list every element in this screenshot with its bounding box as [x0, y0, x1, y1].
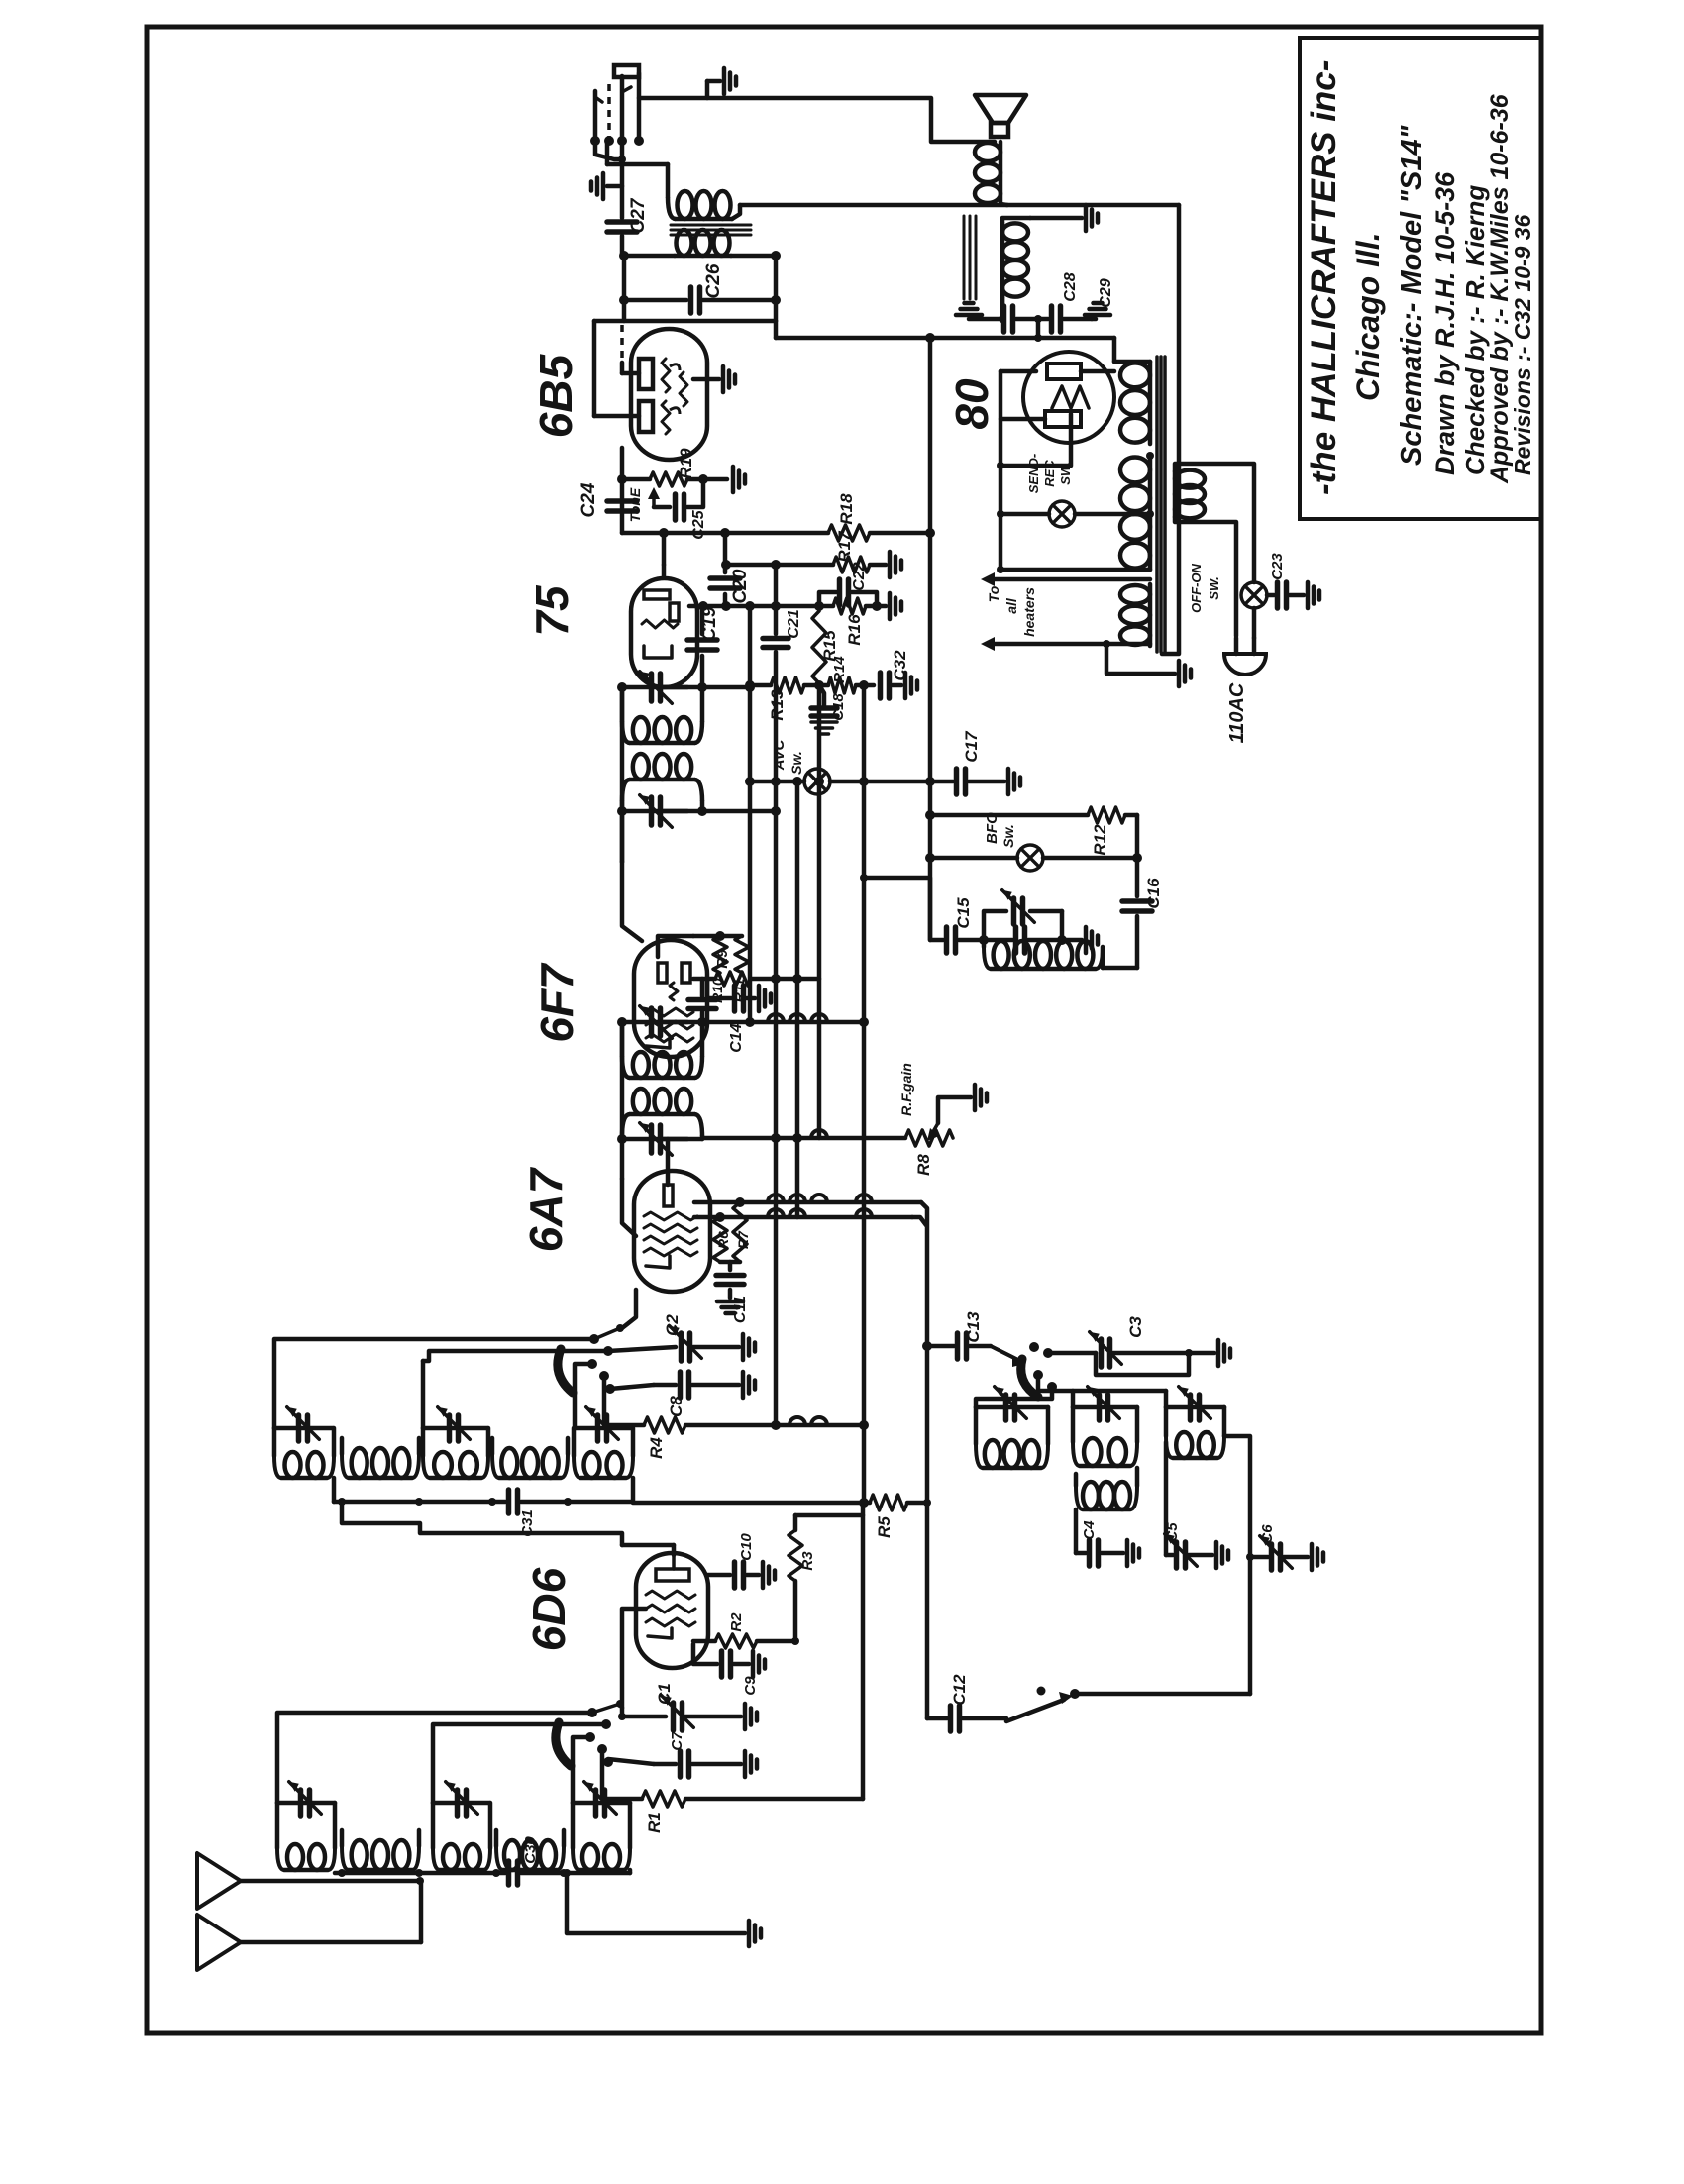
- switch SW1 blade: [556, 1722, 571, 1766]
- antenna coil group 3 trimmer: [573, 1782, 630, 1816]
- wire C7 row: [608, 1759, 654, 1764]
- wire C6 drop: [1224, 1436, 1250, 1557]
- wire antenna baseline: [335, 1869, 505, 1877]
- wire R2 junction up: [776, 1605, 795, 1641]
- wire hops row 1149: [771, 1130, 827, 1143]
- svg-text:R5: R5: [875, 1516, 894, 1538]
- svg-text:heaters: heaters: [1021, 587, 1037, 637]
- capacitor C4: [1076, 1540, 1123, 1566]
- wire SW1 feed G3: [573, 1737, 590, 1803]
- svg-text:C21: C21: [786, 609, 802, 638]
- output transformer primary: [1002, 218, 1030, 319]
- title text checked by: [1460, 185, 1490, 475]
- svg-text:C5: C5: [1164, 1522, 1181, 1542]
- wire row 1214: [694, 1197, 921, 1207]
- label C13: [964, 1311, 983, 1343]
- resistor R14: [828, 677, 856, 693]
- svg-text:6B5: 6B5: [530, 353, 581, 438]
- label C30: [522, 1836, 539, 1864]
- ground BFO tank: [1086, 927, 1098, 953]
- label R18: [837, 493, 856, 525]
- tube 6B5 grid resistors: [680, 372, 687, 406]
- ground C2: [743, 1334, 755, 1360]
- label R6: [715, 1231, 731, 1249]
- resistor R18: [828, 525, 870, 541]
- capacitor C19: [687, 606, 717, 687]
- capacitor C8: [654, 1372, 739, 1398]
- label C8: [667, 1396, 685, 1417]
- svg-text:R1: R1: [645, 1812, 664, 1833]
- label R7: [735, 1230, 751, 1249]
- wire B+ to HV top: [930, 338, 1114, 362]
- switch SEND-REC: [1049, 501, 1075, 527]
- label C28: [1062, 272, 1079, 301]
- wire 6A7 grid to SW2: [620, 1290, 636, 1328]
- svg-text:R12: R12: [1091, 824, 1109, 856]
- svg-text:Schematic:- Model "S14": Schematic:- Model "S14": [1396, 124, 1427, 466]
- capacitor C28: [1004, 306, 1049, 332]
- transformer T1 secondary: [619, 230, 781, 260]
- wire 6B5 grid row: [594, 319, 776, 324]
- IFT3 secondary coil: [622, 754, 702, 811]
- capacitor C25: [654, 479, 703, 520]
- switch osc blade from C13: [991, 1346, 1024, 1367]
- label C23: [1269, 553, 1286, 580]
- wire osc feed C3: [1048, 1351, 1096, 1356]
- wire C1 row: [618, 1713, 666, 1720]
- wire C16 to coil: [1103, 966, 1137, 971]
- label R11: [731, 978, 747, 1002]
- mixer plain coil 1: [342, 1438, 419, 1478]
- svg-text:R.F.gain: R.F.gain: [898, 1063, 914, 1116]
- ground C10: [763, 1562, 775, 1588]
- svg-text:OFF-ON: OFF-ON: [1189, 563, 1204, 612]
- resistor R7: [733, 1202, 747, 1262]
- resistor R4: [644, 1417, 685, 1433]
- capacitor C24: [607, 501, 637, 511]
- svg-text:Chicago Ill.: Chicago Ill.: [1350, 232, 1386, 401]
- resistor R6: [713, 1217, 727, 1262]
- IFT2 left rail: [620, 1022, 625, 1139]
- label C2: [663, 1314, 682, 1336]
- bus wire 781: [771, 560, 781, 1425]
- svg-text:R19: R19: [677, 448, 695, 479]
- label C6: [1259, 1524, 1276, 1544]
- ground output transformer: [1030, 205, 1098, 231]
- capacitor C cathode 6F7: [707, 979, 755, 1011]
- transformer T1 primary: [668, 191, 740, 219]
- wire Tout primary to caps: [999, 297, 1006, 323]
- wire grid row R19: [617, 474, 650, 484]
- switch SW4 blade: [1006, 1687, 1073, 1722]
- bus wire 872: [863, 685, 864, 1799]
- label R19: [677, 448, 695, 479]
- mixer coil group 1: [274, 1428, 334, 1502]
- osc coil group 2 trimmer: [1073, 1387, 1137, 1420]
- antenna symbol 2: [197, 1915, 241, 1970]
- wire C17 row: [930, 780, 953, 784]
- wire 6D6 grid rail: [622, 1609, 646, 1716]
- wire SW2 feed mid: [423, 1351, 608, 1428]
- resistor R9: [715, 972, 751, 986]
- wire hops row 1214: [768, 1195, 872, 1202]
- switch AVC: [804, 769, 830, 794]
- wire switch to C23: [1267, 593, 1274, 598]
- tube 6B5 plate leads: [594, 321, 639, 416]
- svg-text:6F7: 6F7: [531, 962, 582, 1043]
- tube 6F7 plate res: [670, 983, 678, 1000]
- label R2: [728, 1612, 745, 1632]
- svg-text:C2: C2: [663, 1314, 682, 1336]
- ground C29 right: [1085, 303, 1110, 319]
- antenna plain coil 1: [342, 1830, 419, 1870]
- svg-text:all: all: [1003, 597, 1019, 614]
- wire B+ row 1032: [702, 1017, 869, 1027]
- capacitor C29: [1052, 306, 1093, 332]
- capacitor C13: [958, 1333, 992, 1359]
- wire mixer baseline: [334, 1498, 505, 1506]
- switch SW1 contacts: [585, 1708, 613, 1767]
- ground top tap: [707, 68, 736, 98]
- label C19: [699, 606, 720, 641]
- svg-text:Revisions :- C32 10-9 36: Revisions :- C32 10-9 36: [1510, 214, 1535, 475]
- switch SW2 pointer: [594, 1324, 624, 1339]
- resistor R2: [715, 1634, 757, 1648]
- resistor R10: [713, 936, 727, 988]
- label 6B5: [530, 353, 581, 438]
- resistor R16: [833, 598, 866, 614]
- label 75: [526, 584, 578, 637]
- bus wire 804: [792, 777, 802, 1217]
- tube 80 plate 2: [1045, 411, 1081, 427]
- label R16: [845, 614, 864, 646]
- osc coil group 1 trimmer: [976, 1387, 1048, 1420]
- label R14: [831, 656, 848, 683]
- tube 6D6 plate: [656, 1555, 689, 1581]
- resistor R1: [642, 1791, 685, 1807]
- HV winding bottom: [1120, 456, 1150, 570]
- wire B+ row: [622, 528, 828, 538]
- svg-text:REC: REC: [1042, 460, 1057, 487]
- svg-text:Drawn by R.J.H. 10-5-36: Drawn by R.J.H. 10-5-36: [1430, 171, 1460, 475]
- resistor R15: [812, 611, 826, 683]
- wire R2 right: [757, 1581, 799, 1645]
- BFO coil: [984, 940, 1103, 969]
- phone jack tip contact: [614, 65, 639, 77]
- resistor R13: [771, 677, 804, 693]
- ground C7: [745, 1751, 757, 1777]
- wire R3 top: [795, 1515, 863, 1530]
- tube 6D6 grids: [646, 1591, 695, 1626]
- wire BFO tank ground: [1062, 938, 1082, 943]
- svg-text:R14: R14: [831, 656, 848, 683]
- label C14: [728, 1023, 745, 1052]
- capacitor C9: [693, 1644, 749, 1677]
- wire SW1 feed top: [277, 1713, 592, 1803]
- wire antenna 2: [241, 1940, 421, 1945]
- svg-text:C3: C3: [1126, 1316, 1145, 1338]
- wire row 612: [698, 601, 833, 611]
- wire rows to C13 rail: [912, 1202, 927, 1718]
- wire AVC row: [745, 777, 824, 786]
- trimmer C1: [662, 1696, 741, 1730]
- title text revisions: [1510, 214, 1535, 475]
- wire row 1229: [694, 1212, 912, 1222]
- wire IFT2 to 6A7: [622, 1139, 636, 1236]
- osc coil group 2: [1073, 1407, 1137, 1466]
- svg-text:R6: R6: [715, 1231, 731, 1249]
- trimmer C5: [1165, 1534, 1212, 1568]
- svg-text:C30: C30: [522, 1836, 539, 1864]
- resistor R8: [905, 1130, 953, 1146]
- capacitor C10: [706, 1562, 759, 1588]
- svg-text:C10: C10: [738, 1533, 755, 1561]
- osc lower coil: [1076, 1468, 1137, 1509]
- antenna plain coil 2: [496, 1830, 564, 1870]
- capacitor C20: [710, 533, 740, 611]
- capacitor C16: [1122, 901, 1152, 968]
- tube 6A7 cathode: [646, 1256, 670, 1268]
- wire C5 drop: [1165, 1442, 1167, 1555]
- BFO tank cap: [984, 927, 1062, 953]
- label C9: [742, 1676, 759, 1696]
- antenna coil group 2 trimmer: [433, 1782, 489, 1816]
- phone jack junction dots: [590, 136, 644, 146]
- wire R19 to ground: [687, 474, 727, 484]
- wire R13-R14: [804, 680, 828, 690]
- wire 5V top to switch rail: [1175, 464, 1254, 582]
- label SEND-REC SW: [1026, 454, 1073, 493]
- svg-text:110AC: 110AC: [1226, 682, 1248, 743]
- ground C18: [811, 722, 837, 734]
- ground R19: [733, 467, 745, 492]
- output transformer core: [964, 216, 976, 299]
- label R15: [820, 630, 839, 662]
- wire row 692: [745, 680, 771, 690]
- wire 6A7 plate lead: [666, 1139, 671, 1185]
- ground antenna bank: [749, 1921, 761, 1946]
- wire R9 row: [693, 977, 715, 982]
- switch SW2 blade: [558, 1349, 573, 1393]
- label C29: [1098, 278, 1114, 307]
- tube 6F7 cathode: [646, 1038, 670, 1048]
- IFT2 secondary coil: [622, 1089, 702, 1139]
- wire hops row 1229: [768, 1209, 872, 1217]
- svg-text:R9: R9: [714, 949, 731, 969]
- label C5: [1164, 1522, 1181, 1542]
- wire speaker return: [740, 203, 1179, 208]
- ground C17: [1008, 769, 1020, 794]
- wire R9 right: [751, 974, 819, 984]
- wire jack step to T1: [607, 141, 668, 197]
- svg-text:R2: R2: [728, 1612, 745, 1632]
- ground C11: [717, 1301, 743, 1313]
- label R9: [714, 949, 731, 969]
- capacitor C22 loop: [819, 579, 877, 606]
- title text city: [1350, 232, 1386, 401]
- tube 6A7 plate: [664, 1185, 673, 1206]
- osc coil group 3: [1166, 1407, 1224, 1458]
- heater winding: [1120, 584, 1150, 646]
- mixer coil group 3: [574, 1428, 633, 1478]
- plug 110AC prongs: [1236, 638, 1254, 654]
- IFT3 left rail: [620, 687, 625, 862]
- trimmer C2: [670, 1326, 739, 1361]
- label C27: [628, 197, 649, 233]
- label C7: [669, 1731, 685, 1751]
- svg-text:Sw.: Sw.: [1000, 824, 1016, 848]
- ground C5: [1216, 1542, 1228, 1568]
- transformer T1 core: [671, 225, 751, 235]
- wire 75 right lead: [689, 604, 703, 609]
- capacitor C14: [688, 979, 716, 1027]
- power transformer core: [1157, 357, 1165, 652]
- ground R8: [975, 1085, 987, 1110]
- antenna coil group 2: [433, 1803, 490, 1870]
- svg-text:R18: R18: [837, 493, 856, 525]
- tube 80 plate 1: [1047, 364, 1081, 379]
- capacitor C32: [881, 673, 902, 698]
- label C17: [962, 730, 981, 763]
- mixer coil group 2 trimmer: [423, 1407, 487, 1441]
- wire R1 row right: [685, 1797, 863, 1802]
- trimmer C3: [1090, 1332, 1193, 1367]
- pot wiper R8: [927, 1097, 971, 1141]
- capacitor C21: [763, 639, 789, 648]
- svg-text:SW.: SW.: [1058, 462, 1073, 485]
- svg-text:C28: C28: [1062, 272, 1079, 301]
- label AVC Sw: [771, 739, 804, 775]
- ground C28 left: [956, 303, 982, 315]
- border frame: [147, 27, 1541, 2033]
- label C32: [891, 650, 909, 681]
- wire T1 to B+ node: [776, 321, 930, 338]
- wire R17 row: [721, 560, 833, 570]
- ground C23: [1308, 582, 1319, 608]
- label C16: [1144, 878, 1163, 909]
- title text schematic model: [1396, 124, 1427, 466]
- title text drawn by: [1430, 171, 1460, 475]
- wire osc feeds: [976, 1375, 1166, 1407]
- tube 6B5 plate 2: [639, 401, 680, 434]
- tube 6A7 envelope: [634, 1171, 710, 1292]
- antenna symbol 1: [197, 1853, 241, 1909]
- resistor R19: [650, 472, 687, 486]
- svg-text:R7: R7: [735, 1230, 751, 1249]
- wire right edge down: [1162, 205, 1179, 654]
- tube 6A7 grids: [644, 1212, 697, 1256]
- wire C2 row: [608, 1347, 676, 1351]
- osc coil group 3 trimmer: [1166, 1387, 1224, 1420]
- switch OFF-ON: [1241, 582, 1267, 608]
- svg-text:C9: C9: [742, 1676, 759, 1696]
- wire hops row 1439: [789, 1417, 827, 1425]
- svg-text:C15: C15: [954, 897, 973, 929]
- label TonE: [627, 487, 643, 522]
- tube 75 plate lead: [662, 533, 667, 577]
- label C21: [786, 609, 802, 638]
- title text company: [1305, 60, 1343, 495]
- svg-text:AVC: AVC: [771, 739, 788, 772]
- wire C13 row: [922, 1341, 954, 1351]
- wire C28 row: [969, 317, 1000, 322]
- plug 110AC body: [1224, 654, 1266, 675]
- osc coil group 1: [976, 1407, 1048, 1468]
- label RF gain: [898, 1063, 914, 1116]
- IFT2 trimmer bottom: [617, 1123, 702, 1156]
- title text approved by: [1486, 93, 1514, 484]
- switch BFO: [1017, 845, 1043, 871]
- wire 6D6 plate to top: [622, 1545, 674, 1555]
- wire switch to plug: [1252, 608, 1257, 638]
- label C4: [1081, 1520, 1098, 1540]
- IFT3 primary coil: [622, 687, 702, 743]
- wire C3 padder loop: [1096, 1353, 1189, 1375]
- svg-text:R16: R16: [845, 614, 864, 646]
- wire R8 row: [702, 1136, 905, 1141]
- label C24: [579, 482, 599, 517]
- resistor R5: [870, 1495, 907, 1510]
- tube 75 diode plates: [644, 590, 679, 621]
- BFO tank trimmer: [1002, 890, 1035, 924]
- wire SW2 feed G3: [575, 1364, 592, 1428]
- IFT2 trimmer top: [617, 1006, 702, 1039]
- tube 6F7 plate 1: [658, 963, 667, 983]
- label C11: [732, 1296, 749, 1323]
- wire SW2 feed top: [274, 1339, 594, 1428]
- svg-text:C4: C4: [1081, 1520, 1098, 1540]
- speaker voice coil: [975, 142, 1007, 205]
- wire bank to ground: [563, 1869, 745, 1933]
- label R13: [768, 689, 787, 721]
- tube 6D6 cathode: [648, 1628, 672, 1638]
- IFT3 trimmer bottom: [617, 795, 702, 828]
- svg-text:SEND-: SEND-: [1026, 454, 1041, 493]
- wire IFT3 to 6F7: [622, 811, 642, 941]
- label 6A7: [520, 1166, 572, 1252]
- antenna coil group 1: [277, 1803, 335, 1873]
- label C18: [830, 693, 847, 721]
- switch SW3 contacts: [1029, 1342, 1057, 1392]
- wire HV bottom: [997, 566, 1150, 573]
- wire C15 branch: [860, 874, 943, 940]
- label R10: [709, 978, 725, 1003]
- bus wire 827: [817, 685, 822, 1138]
- wire heater bottom arrow: [981, 637, 1150, 651]
- capacitor C26: [619, 287, 781, 313]
- wire 6F7 grid top: [658, 936, 693, 957]
- ground C9: [753, 1651, 765, 1677]
- label C26: [703, 263, 724, 298]
- IFT2 primary coil: [622, 1022, 702, 1078]
- ground jack sleeve: [591, 173, 622, 199]
- label C3: [1126, 1316, 1145, 1338]
- wire BFO row: [925, 853, 1142, 863]
- capacitor C30: [492, 1861, 630, 1885]
- label R3: [799, 1551, 816, 1571]
- wire R14 right: [856, 680, 874, 690]
- tone arrow: [648, 487, 660, 507]
- label C12: [950, 1674, 969, 1706]
- tube 6B5 envelope: [631, 329, 707, 460]
- svg-text:C24: C24: [579, 482, 599, 517]
- ground R16 row: [890, 593, 901, 619]
- capacitor C12: [951, 1706, 1007, 1731]
- wire T1 ladder rails: [624, 256, 776, 321]
- wire R18 to bus: [870, 528, 935, 538]
- svg-text:C17: C17: [962, 730, 981, 763]
- tube 6F7 envelope: [634, 940, 707, 1057]
